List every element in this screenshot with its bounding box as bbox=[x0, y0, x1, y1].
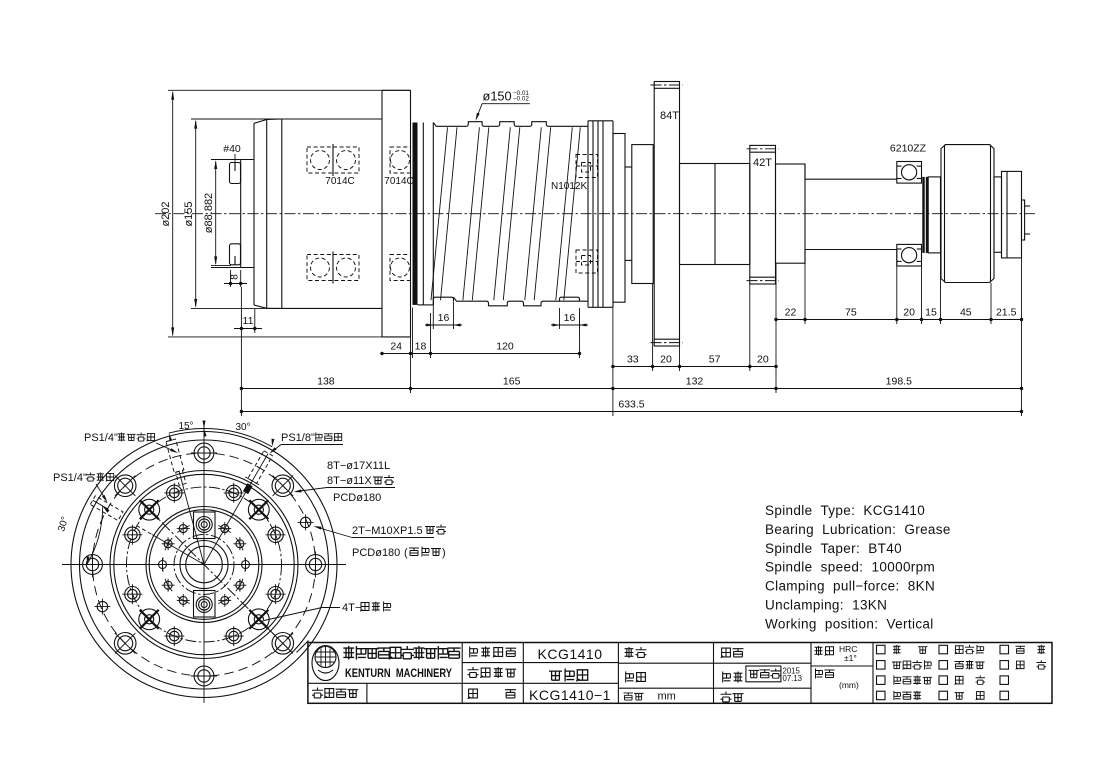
mid hole 112.5deg bbox=[268, 587, 283, 602]
svg-text:30°: 30° bbox=[235, 422, 250, 433]
svg-text:PS1/4": PS1/4" bbox=[84, 432, 118, 444]
svg-text:4T−: 4T− bbox=[342, 602, 361, 614]
svg-text:(: ( bbox=[404, 547, 408, 559]
dims 138 165 132 198.5 bbox=[241, 388, 1021, 390]
view centerlines bbox=[62, 564, 346, 566]
2T-M10 hole 247.5deg bbox=[97, 601, 107, 611]
svg-text:Bearing Lubrication: Grease: Bearing Lubrication: Grease bbox=[765, 522, 951, 537]
small hole 240deg bbox=[164, 581, 172, 589]
drafter label bbox=[723, 672, 731, 683]
relief groove right bbox=[560, 297, 580, 301]
svg-text:PCDø180: PCDø180 bbox=[333, 492, 381, 504]
svg-text:Spindle speed: 10000rpm: Spindle speed: 10000rpm bbox=[765, 560, 935, 575]
front flange bbox=[410, 90, 412, 337]
small hole 150deg bbox=[221, 596, 229, 604]
dim 8 bbox=[230, 270, 232, 287]
svg-text:18: 18 bbox=[415, 341, 427, 353]
svg-text:): ) bbox=[442, 547, 446, 559]
threaded spindle section D150 bbox=[413, 89, 614, 308]
diagonal centerline bbox=[149, 510, 292, 653]
spacer bbox=[928, 177, 940, 253]
svg-text:#40: #40 bbox=[223, 143, 241, 155]
bearing 7014C rear bbox=[390, 147, 411, 173]
mid hole 247.5deg bbox=[125, 587, 140, 602]
small hole 300deg bbox=[164, 540, 172, 548]
svg-text:8T−ø17X11L: 8T−ø17X11L bbox=[327, 460, 390, 472]
unit label bbox=[624, 693, 634, 700]
mid hole 67.5deg bbox=[268, 527, 283, 542]
svg-text:Spindle Type: KCG1410: Spindle Type: KCG1410 bbox=[765, 503, 925, 518]
dim D155 bbox=[195, 121, 197, 307]
small hole 210deg bbox=[179, 596, 187, 604]
svg-text:15°: 15° bbox=[178, 421, 193, 432]
2T-M10 hole 67.5deg bbox=[300, 517, 310, 527]
svg-text:22: 22 bbox=[785, 307, 797, 319]
svg-text:84T: 84T bbox=[660, 110, 679, 122]
svg-text:ø150: ø150 bbox=[483, 89, 512, 104]
pulley bbox=[941, 145, 994, 283]
4T nozzle 45deg bbox=[248, 499, 269, 520]
small hole 330deg bbox=[179, 525, 187, 533]
drawbar shaft bbox=[805, 178, 897, 180]
small hole 60deg bbox=[236, 540, 244, 548]
svg-text:mm: mm bbox=[658, 691, 676, 703]
svg-text:ø88.882: ø88.882 bbox=[203, 193, 215, 233]
extension lines bbox=[240, 333, 242, 416]
svg-text:165: 165 bbox=[503, 376, 521, 388]
logo bbox=[312, 646, 339, 681]
row lines bbox=[308, 682, 619, 684]
mid PCD bbox=[127, 487, 282, 642]
svg-text:Clamping pull−force: 8KN: Clamping pull−force: 8KN bbox=[765, 579, 935, 594]
PS1/4 cutting-water port channel (345deg) bbox=[166, 439, 184, 472]
svg-text:132: 132 bbox=[686, 376, 704, 388]
spindle assembly side view bbox=[155, 90, 1035, 337]
svg-text:7014C: 7014C bbox=[325, 176, 354, 187]
dims 33 20 57 20 bbox=[613, 366, 776, 368]
svg-text:120: 120 bbox=[496, 341, 514, 353]
bearing pair 7014C front bbox=[307, 147, 333, 173]
ring nut right bbox=[587, 121, 589, 307]
svg-text:Working position: Vertical: Working position: Vertical bbox=[765, 616, 934, 631]
dims 22 75 20 15 45 21.5 bbox=[776, 319, 1022, 321]
mid hole 337.5deg bbox=[167, 485, 182, 500]
svg-text:±1°: ±1° bbox=[844, 653, 857, 663]
audit label bbox=[721, 648, 731, 658]
small hole 270deg bbox=[159, 561, 167, 569]
svg-text:633.5: 633.5 bbox=[618, 399, 644, 411]
svg-text:KENTURN MACHINERY: KENTURN MACHINERY bbox=[345, 666, 452, 680]
svg-text:07.13: 07.13 bbox=[783, 674, 803, 683]
svg-text:75: 75 bbox=[845, 307, 857, 319]
boss circles bbox=[110, 471, 298, 659]
dim 30deg left bbox=[87, 506, 103, 565]
bolt PCD dashed bbox=[93, 453, 316, 676]
column lines bbox=[461, 643, 463, 704]
small hole 30deg bbox=[221, 525, 229, 533]
dim D88.882 bbox=[215, 162, 217, 265]
relief groove left bbox=[433, 297, 453, 305]
shaft section bbox=[680, 164, 750, 265]
svg-text:20: 20 bbox=[903, 307, 915, 319]
svg-text:24: 24 bbox=[390, 341, 402, 353]
gear 42T bbox=[750, 145, 776, 284]
treatment checkboxes bbox=[877, 645, 886, 654]
clamp band (dark) bbox=[413, 123, 418, 305]
svg-text:20: 20 bbox=[757, 354, 769, 366]
spacer disc bbox=[613, 134, 625, 303]
svg-text:15: 15 bbox=[925, 307, 937, 319]
svg-text:198.5: 198.5 bbox=[886, 376, 912, 388]
svg-text:138: 138 bbox=[317, 376, 335, 388]
bolt hole 270deg bbox=[83, 555, 103, 575]
design label bbox=[626, 672, 634, 683]
8T hole 45deg bbox=[272, 475, 294, 497]
svg-text:PS1/8": PS1/8" bbox=[281, 432, 315, 444]
gear 84T bbox=[654, 82, 679, 347]
gear shaft assembly bbox=[613, 82, 1030, 347]
4T nozzle 225deg bbox=[139, 609, 160, 630]
flange outer circles bbox=[71, 432, 337, 698]
svg-text:21.5: 21.5 bbox=[996, 307, 1017, 319]
dims 24 18 120 bbox=[382, 353, 580, 355]
shaft tail thread bbox=[1022, 200, 1025, 240]
4T nozzle 315deg bbox=[139, 499, 160, 520]
bearing N1012K bbox=[576, 155, 598, 178]
depth label bbox=[816, 669, 823, 679]
hub circles bbox=[146, 507, 262, 623]
svg-text:42T: 42T bbox=[753, 157, 772, 169]
svg-text:8T−ø11X: 8T−ø11X bbox=[327, 475, 372, 487]
dim 633.5 bbox=[241, 411, 1021, 413]
neck bbox=[625, 166, 632, 168]
svg-text:20: 20 bbox=[660, 354, 672, 366]
dimension rows bbox=[240, 250, 1024, 416]
product model label bbox=[470, 647, 478, 658]
svg-text:2T−M10XP1.5: 2T−M10XP1.5 bbox=[352, 525, 423, 537]
part name label bbox=[468, 667, 479, 677]
clamp block top bbox=[194, 512, 216, 539]
mid hole 292.5deg bbox=[125, 527, 140, 542]
svg-text:57: 57 bbox=[709, 354, 721, 366]
part name value bbox=[549, 671, 562, 680]
lock ring (dark) bbox=[922, 177, 924, 253]
small hole 90deg bbox=[242, 561, 250, 569]
dim 11 bbox=[240, 287, 242, 333]
small hole 120deg bbox=[236, 581, 244, 589]
svg-text:ø155: ø155 bbox=[183, 201, 195, 226]
svg-text:PCDø180: PCDø180 bbox=[352, 547, 400, 559]
4T nozzle 135deg bbox=[248, 609, 269, 630]
8T hole 135deg bbox=[272, 633, 294, 655]
radial line to air port bbox=[204, 454, 268, 565]
radial line to cutting port bbox=[179, 472, 204, 565]
clamp block bottom bbox=[194, 591, 216, 618]
helix groove lines bbox=[431, 127, 448, 300]
hardness label bbox=[815, 646, 823, 656]
spacer block bbox=[776, 164, 806, 263]
inner PCD bbox=[174, 535, 234, 595]
svg-text:(mm): (mm) bbox=[839, 680, 859, 690]
thread outline bottom bbox=[454, 297, 589, 306]
8T hole 225deg bbox=[114, 633, 136, 655]
part no. label bbox=[312, 688, 323, 698]
svg-text:16: 16 bbox=[564, 312, 576, 324]
PS1/4 coolant port channel (300deg) bbox=[90, 496, 123, 521]
svg-text:33: 33 bbox=[627, 354, 639, 366]
nose second ring bbox=[281, 119, 283, 308]
svg-text:KCG1410−1: KCG1410−1 bbox=[529, 687, 611, 703]
svg-text:7014C: 7014C bbox=[384, 176, 413, 187]
sheet corner diagonal bbox=[297, 641, 309, 653]
callouts bbox=[53, 432, 446, 621]
nose stud outline bbox=[211, 159, 254, 161]
dim 15deg bbox=[169, 428, 204, 433]
svg-text:−0.02: −0.02 bbox=[513, 95, 529, 102]
specification text bbox=[765, 503, 951, 631]
svg-text:6210ZZ: 6210ZZ bbox=[890, 143, 927, 155]
svg-text:16: 16 bbox=[438, 312, 450, 324]
svg-text:KCG1410: KCG1410 bbox=[538, 646, 603, 662]
svg-text:ø202: ø202 bbox=[160, 201, 172, 226]
material label bbox=[721, 692, 732, 702]
radial line 300deg bbox=[152, 535, 204, 565]
dim 16 left bbox=[432, 305, 434, 329]
svg-text:11: 11 bbox=[243, 315, 254, 327]
bolt hole 180deg bbox=[194, 666, 214, 686]
PS1/8 air port channel (30deg) bbox=[248, 451, 273, 484]
svg-text:45: 45 bbox=[960, 307, 972, 319]
company name CJK bbox=[343, 646, 354, 660]
dim 30deg top bbox=[204, 429, 272, 447]
approve label bbox=[625, 647, 634, 658]
housing body bbox=[282, 118, 382, 120]
svg-text:Spindle Taper: BT40: Spindle Taper: BT40 bbox=[765, 541, 902, 556]
drawing no. label bbox=[468, 689, 478, 699]
svg-text:PS1/4": PS1/4" bbox=[53, 472, 87, 484]
mid hole 157.5deg bbox=[226, 628, 241, 643]
title block bbox=[297, 641, 1053, 704]
front flange circular view bbox=[56, 421, 346, 704]
nose face ring bbox=[253, 123, 255, 305]
bolt hole 90deg bbox=[306, 555, 326, 575]
svg-text:N1012K: N1012K bbox=[551, 181, 587, 192]
8T hole 315deg bbox=[114, 475, 136, 497]
svg-text:8: 8 bbox=[230, 274, 241, 280]
bore circles bbox=[180, 541, 228, 589]
svg-text:Unclamping: 13KN: Unclamping: 13KN bbox=[765, 598, 887, 613]
mid hole 202.5deg bbox=[167, 628, 182, 643]
bolt hole 0deg bbox=[194, 443, 214, 463]
drafter stamp bbox=[746, 666, 781, 682]
dim D202 bbox=[172, 92, 174, 336]
collar disc bbox=[632, 145, 653, 284]
mid hole 22.5deg bbox=[226, 485, 241, 500]
dim 16 right bbox=[559, 308, 561, 329]
bearing 6210ZZ bbox=[897, 162, 922, 184]
shaft centerline bbox=[155, 213, 1035, 215]
thread outline top bbox=[433, 122, 588, 127]
end collar bbox=[994, 177, 1002, 252]
